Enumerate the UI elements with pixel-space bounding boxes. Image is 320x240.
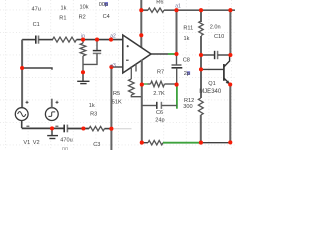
svg-text:51K: 51K: [112, 99, 122, 105]
svg-text:a1: a1: [175, 4, 181, 10]
svg-text:00p: 00p: [99, 2, 108, 8]
node V2 bottom / ground: [50, 126, 54, 130]
transistor Q1: [224, 56, 230, 85]
wire top rail right of R6: [164, 9, 235, 11]
wire output green segment: [168, 53, 177, 55]
svg-text:in: in: [81, 34, 85, 40]
resistor R3: [89, 126, 105, 130]
node R12 bottom: [199, 141, 203, 145]
V1 plus marker: [26, 101, 29, 104]
svg-text:1k: 1k: [89, 103, 95, 109]
node R7 right / C8 bottom: [175, 83, 179, 87]
source V2: [45, 108, 58, 121]
node C10 left: [199, 53, 203, 57]
node C10 right / Q1 collector: [228, 53, 232, 57]
svg-text:470u: 470u: [60, 138, 72, 144]
bottom rail with resistor: [142, 142, 148, 144]
svg-text:C4: C4: [103, 14, 110, 20]
svg-text:R11: R11: [183, 25, 193, 31]
node Q1 emitter rail bottom: [228, 140, 232, 144]
node a1 on top rail: [174, 8, 178, 12]
capacitor C6 horizontal: [142, 105, 156, 107]
svg-text:C10: C10: [214, 34, 224, 40]
node right rail top: [228, 8, 232, 12]
node Q1 emitter pin: [228, 82, 232, 86]
capacitor C8 vertical: [176, 54, 178, 65]
node C3-R3 junction: [81, 126, 85, 130]
wire C3 to R3: [67, 128, 89, 130]
svg-text:C8: C8: [183, 58, 190, 64]
node a3 (op-amp - input): [109, 65, 113, 69]
resistor R11 vertical: [199, 21, 203, 36]
rail x=201 top to R11: [200, 10, 202, 22]
svg-text:00: 00: [62, 147, 68, 150]
V2 top stub: [51, 99, 53, 108]
resistor R6: [148, 8, 164, 12]
wire C4 bottom to ground node: [83, 53, 97, 64]
svg-text:300: 300: [183, 104, 192, 110]
op-amp - marker: [126, 59, 129, 61]
wire bottom green segment: [163, 142, 201, 144]
svg-text:2.7K: 2.7K: [153, 91, 165, 97]
svg-text:R6: R6: [156, 0, 163, 5]
node R3 right on rail: [109, 127, 113, 131]
node bottom rail left: [140, 141, 144, 145]
grid dots: [0, 0, 235, 150]
node a2 (op-amp + input): [109, 38, 113, 42]
svg-text:MJE340: MJE340: [199, 89, 222, 95]
V1 minus marker: [26, 125, 29, 127]
wire op-amp output: [151, 53, 168, 55]
svg-text:1k: 1k: [61, 5, 67, 11]
node in (R1/R2 junction): [81, 38, 85, 42]
wire a3 to op-amp - input: [111, 66, 122, 68]
svg-text:R3: R3: [90, 112, 97, 118]
resistor R7 horizontal: [142, 83, 144, 85]
wire R1 to op-amp + input: [77, 39, 123, 41]
capacitor C4 vertical: [96, 40, 98, 51]
rail x=201 bottom: [200, 115, 202, 143]
svg-text:R1: R1: [59, 16, 66, 22]
resistor R2 vertical: [82, 40, 84, 44]
op-amp + marker: [127, 45, 129, 47]
ground below R2: [77, 72, 89, 83]
svg-text:24p: 24p: [155, 117, 164, 123]
svg-text:C6: C6: [156, 110, 163, 116]
svg-text:R5: R5: [113, 91, 120, 97]
resistor R12 vertical: [198, 98, 203, 115]
node V1 top wire junction: [20, 66, 24, 70]
svg-text:2p: 2p: [184, 71, 190, 77]
capacitor C10 horizontal: [201, 54, 214, 56]
wire feedback vertical x=142: [141, 60, 143, 143]
wire vertical supply stub x=141 (op-amp V+ pin): [140, 0, 142, 48]
svg-text:47u: 47u: [32, 7, 41, 13]
svg-text:C3: C3: [93, 142, 100, 148]
Q1 emitter arrow: [226, 80, 230, 84]
svg-text:V2: V2: [33, 140, 40, 146]
wire R3 to rail: [105, 128, 112, 130]
capacitor C1: [36, 36, 39, 44]
wire left vertical to V1: [21, 40, 23, 108]
V1 bottom stub: [21, 121, 23, 129]
wire base row to Q1: [201, 68, 223, 70]
svg-text:a2: a2: [110, 33, 116, 39]
node R7 left: [140, 83, 144, 87]
resistor R1: [53, 37, 77, 42]
wire top supply rail horizontal: [141, 9, 148, 11]
source V1: [15, 108, 28, 121]
svg-text:R12: R12: [184, 98, 194, 104]
rail x=230 emitter down: [229, 84, 231, 142]
node op-amp V+ pin: [139, 33, 143, 37]
rail x=201 middle: [200, 36, 202, 98]
faint stub right of node: [112, 128, 132, 130]
wire C1 to R1: [39, 39, 54, 41]
wire bottom right: [201, 142, 230, 144]
wire input row horizontal: [22, 39, 35, 41]
rail x=230 top: [229, 10, 231, 55]
capacitor C3: [64, 125, 67, 133]
node Q1 base wire: [199, 67, 203, 71]
svg-text:10k: 10k: [80, 5, 89, 11]
resistor R(bottom): [148, 141, 163, 145]
V2 minus marker: [55, 125, 58, 127]
wire green vertical below C8/R7 node: [176, 85, 178, 109]
wire rail x=176.5 a1 to output: [176, 10, 178, 54]
svg-text:R2: R2: [79, 15, 86, 21]
bottom-left rail: [22, 127, 64, 129]
node number blue mark: [105, 2, 108, 6]
node op-amp output: [174, 52, 178, 56]
svg-text:1k: 1k: [184, 36, 190, 42]
V2 plus marker: [56, 101, 59, 104]
node C4 top: [95, 38, 99, 42]
node R11 top: [199, 8, 203, 12]
node R2 ground: [81, 70, 85, 74]
svg-text:V1: V1: [23, 140, 30, 146]
wire node to V2 column horizontal: [22, 68, 52, 70]
svg-text:2.0n: 2.0n: [210, 25, 221, 31]
resistor R5 vertical: [130, 66, 132, 79]
svg-text:a3: a3: [110, 63, 116, 69]
svg-text:C1: C1: [33, 22, 40, 28]
op-amp U1 triangle: [123, 35, 151, 73]
node top rail / V+ pin junction top: [139, 8, 143, 12]
svg-text:R7: R7: [157, 70, 164, 76]
op-amp unused power pin stub: [135, 64, 137, 72]
wire vertical rail x=111 down: [110, 67, 112, 150]
svg-text:Q1: Q1: [208, 81, 215, 87]
ground below V2: [47, 128, 58, 138]
